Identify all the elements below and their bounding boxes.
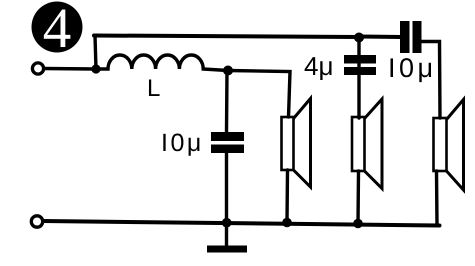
svg-text:I0μ: I0μ [388, 53, 437, 83]
svg-text:L: L [147, 75, 160, 102]
svg-text:4: 4 [43, 0, 72, 60]
svg-text:I0μ: I0μ [161, 129, 204, 157]
svg-text:4μ: 4μ [304, 51, 333, 81]
